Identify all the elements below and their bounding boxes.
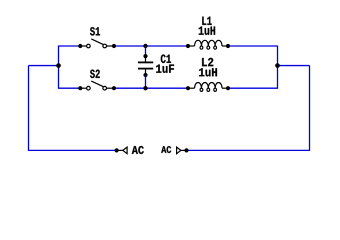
label L2 xyxy=(202,58,213,66)
label AC (left terminal) xyxy=(132,146,144,154)
wire bottom branch mid segment (S2 to C1) xyxy=(114,87,146,89)
value label 1uF xyxy=(156,65,174,73)
junction dot right stub node xyxy=(275,63,279,67)
wire right outer vertical xyxy=(309,66,311,151)
wire left stub vertical xyxy=(58,46,60,89)
label L1 xyxy=(202,17,211,25)
wire top branch left segment xyxy=(59,45,81,47)
wire bottom right horizontal xyxy=(187,149,310,151)
wire top branch mid segment (S1 to C1) xyxy=(114,45,146,47)
wire bottom branch right segment (L2 to right stub) xyxy=(228,87,278,89)
value label 1uH (L2) xyxy=(199,68,217,76)
wire top branch right segment (L1 to right stub) xyxy=(228,45,278,47)
wire right stub vertical xyxy=(277,46,279,89)
label C1 xyxy=(161,54,171,63)
AC terminal right xyxy=(177,147,189,154)
wire bottom branch (C1 to L2) xyxy=(146,87,189,89)
wire bottom branch left segment xyxy=(59,87,81,89)
value label 1uH (L1) xyxy=(199,27,215,35)
capacitor C1 xyxy=(138,44,153,91)
label S1 xyxy=(90,27,100,35)
wire right lead horizontal xyxy=(278,65,310,67)
wire left outer vertical xyxy=(28,66,30,151)
wire left lead horizontal xyxy=(29,65,59,67)
wire top branch (C1 to L1) xyxy=(146,45,189,47)
label S2 xyxy=(90,70,100,78)
inductor L2 xyxy=(186,83,230,92)
junction dot left stub node xyxy=(56,63,60,67)
inductor L1 xyxy=(186,40,230,49)
AC terminal left xyxy=(115,147,128,154)
wire bottom left horizontal xyxy=(29,149,117,151)
label AC (right terminal) xyxy=(161,146,171,153)
switch S2 xyxy=(78,81,116,90)
switch S1 xyxy=(78,39,116,48)
